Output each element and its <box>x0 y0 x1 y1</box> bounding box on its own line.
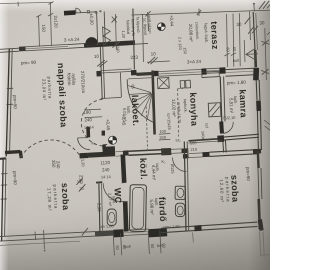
slashes left dim 10/24 <box>76 178 83 185</box>
door arc kamra <box>222 122 233 133</box>
beam 3xA24 above konyha door <box>202 71 220 77</box>
svg-text:240: 240 <box>56 161 61 169</box>
svg-text:pm=90: pm=90 <box>12 171 18 186</box>
door gap fürdő in W_mid <box>171 148 182 151</box>
wall pier before szoba north <box>182 148 189 153</box>
wall terasz west corner pier <box>131 70 137 76</box>
door gap 120 in W_mid thin lines <box>115 150 123 152</box>
svg-text:5,51 m²: 5,51 m² <box>229 98 235 114</box>
svg-text:60: 60 <box>162 243 167 248</box>
door half-disc on H1b <box>85 37 97 44</box>
wall R szoba segment double <box>257 111 258 150</box>
wall R pier to SE corner <box>259 199 260 229</box>
svg-text:±0,00: ±0,00 <box>89 13 95 25</box>
wire kamra south lower line <box>189 141 223 143</box>
svg-text:30: 30 <box>259 20 265 25</box>
svg-text:30: 30 <box>236 22 242 27</box>
wire konyha door lines below beam <box>202 77 219 78</box>
door jamb marks WC door <box>122 182 127 184</box>
wall V1 nappali east upper thin <box>100 47 102 99</box>
wire H1 right thin segment <box>68 44 84 45</box>
wall V3 door post black <box>219 122 224 134</box>
svg-text:Ø125: Ø125 <box>170 164 175 174</box>
svg-text:180: 180 <box>83 110 91 115</box>
exterior steps top-right diagonals <box>259 1 265 9</box>
wall szoba arch south pier <box>80 153 89 159</box>
svg-text:csúszásm.: csúszásm. <box>195 22 201 41</box>
wire top window wall H1 left segment <box>0 48 19 49</box>
wall R pier black kamra <box>256 101 261 112</box>
wall kamra-szoba connector <box>222 140 225 153</box>
svg-text:10: 10 <box>94 54 100 59</box>
wall stairwell south thick H1b <box>84 43 135 46</box>
svg-text:200: 200 <box>159 135 167 140</box>
wall north H2 lakóelőtér segment pier <box>97 71 102 77</box>
stair arrows triangles upper <box>103 27 111 36</box>
svg-text:+0,44: +0,44 <box>169 15 175 27</box>
svg-text:pm=90: pm=90 <box>12 95 18 110</box>
wall szoba north pier black <box>203 152 210 157</box>
window fürdő in B <box>124 229 149 230</box>
svg-text:223: 223 <box>130 55 138 60</box>
hatch slash near terasz west dim <box>148 57 155 64</box>
window W1 nappali top <box>26 44 69 46</box>
door arc lakóelőtér (K) with post <box>86 127 90 138</box>
wall B pier black right of fürdő window <box>149 232 168 233</box>
konyha sink square <box>180 81 185 89</box>
dim line door 180 ticks <box>84 109 102 118</box>
svg-text:12,60 m²: 12,60 m² <box>219 179 225 203</box>
wall SE corner block <box>260 220 262 231</box>
stair winder treads <box>128 78 153 79</box>
window ticks on L2 <box>1 173 7 175</box>
wall WC west top stub <box>96 181 102 183</box>
svg-text:sz=15x25: sz=15x25 <box>166 113 172 130</box>
dim bottom verticals 60/bolt <box>43 230 46 249</box>
svg-text:szl: szl <box>205 123 210 128</box>
svg-text:60: 60 <box>122 245 127 250</box>
svg-text:60: 60 <box>150 244 155 249</box>
svg-text:konyha: konyha <box>188 92 200 127</box>
wall R pier at terasz corner <box>254 50 257 67</box>
svg-text:szoba: szoba <box>60 183 71 212</box>
wall left outer L1 upper <box>6 49 9 157</box>
dim line 150 vertical <box>38 16 41 47</box>
wall right outer R terasz part <box>253 12 255 50</box>
wall lakóelőtér east niche <box>120 73 121 98</box>
chimney shaft X-rect at stair <box>157 77 169 88</box>
svg-text:lapburk.: lapburk. <box>183 99 189 113</box>
svg-text:pm 1,80: pm 1,80 <box>99 223 114 229</box>
wall fürdő east / szoba west <box>184 142 186 232</box>
svg-text:210: 210 <box>190 147 198 152</box>
wall NE corner pier <box>254 73 257 80</box>
door arc fürdő <box>173 158 187 172</box>
wall konyha/kamra V3 <box>220 77 222 122</box>
svg-text:150: 150 <box>183 47 188 55</box>
svg-text:pm=90: pm=90 <box>245 167 251 182</box>
chimney block konyha hatched <box>208 103 221 117</box>
window tick marks on L1 <box>7 87 13 89</box>
dim line 2x120 vertical <box>50 3 51 46</box>
wall left outer L2 lower <box>2 158 4 241</box>
dashed arch A1 szoba-nappali <box>21 140 80 157</box>
svg-text:20,88 m²: 20,88 m² <box>188 24 194 42</box>
window szoba east pm=90 <box>257 168 260 199</box>
bathtub <box>129 185 146 232</box>
door arc at stairwell top <box>76 8 81 13</box>
wire bottom wall B left triple lines <box>0 232 95 237</box>
hatch slash on V1 top <box>97 60 105 66</box>
svg-text:1,20: 1,20 <box>81 159 86 168</box>
svg-text:terasz: terasz <box>209 21 220 50</box>
stair winder right wall <box>153 71 155 135</box>
wall szoba NE corner pier <box>253 149 261 154</box>
svg-text:sz. lépcső: sz. lépcső <box>143 18 149 36</box>
wall terasz west edge <box>133 9 135 70</box>
svg-text:1,20: 1,20 <box>121 30 126 39</box>
svg-text:fagyá. lapb.: fagyá. lapb. <box>204 23 210 43</box>
svg-text:+0,45: +0,45 <box>121 114 127 126</box>
svg-text:240: 240 <box>84 117 92 122</box>
wall H2 stair top segment <box>137 73 156 74</box>
wall szoba north west pier <box>183 154 189 159</box>
wall H2 pier at stair right <box>154 71 159 77</box>
svg-text:közl.: közl. <box>138 158 149 180</box>
wire lakóelőtér north thin lines <box>102 69 132 71</box>
svg-text:270/210cm: 270/210cm <box>80 71 86 94</box>
svg-text:m=ldk 18,75: m=ldk 18,75 <box>176 102 182 124</box>
svg-text:23,04 m²: 23,04 m² <box>41 79 47 101</box>
svg-text:pm= 1,80: pm= 1,80 <box>227 80 247 86</box>
door jambs 180 in V1 <box>101 97 106 99</box>
wall W_mid kozl north <box>88 154 115 155</box>
wall V1 lower black to W_mid <box>102 145 107 155</box>
wall V4 fürdő west thick <box>123 155 124 183</box>
svg-text:1404: 1404 <box>201 131 206 141</box>
dashed arc A2 big door nappali-közl <box>81 99 104 146</box>
svg-text:+0,45: +0,45 <box>105 119 111 131</box>
svg-text:2 x 120: 2 x 120 <box>178 37 184 51</box>
wall pier H1a <box>19 46 26 51</box>
svg-text:2,30: 2,30 <box>97 203 102 212</box>
svg-text:100: 100 <box>159 129 167 134</box>
svg-text:10: 10 <box>151 51 157 56</box>
wall H2 pier black 2 <box>220 67 226 73</box>
svg-text:K₂: K₂ <box>161 159 166 164</box>
wall W_mid continues to fürdő <box>123 150 129 155</box>
svg-text:75/2,10: 75/2,10 <box>222 115 236 121</box>
wall kamra south H3 <box>189 139 223 141</box>
svg-text:14 14: 14 14 <box>101 174 112 179</box>
window kamra in H2 double <box>226 68 258 70</box>
svg-text:K₂: K₂ <box>91 140 96 145</box>
wall H2 pier black <box>202 68 207 74</box>
wall B band near WC <box>95 233 114 234</box>
svg-text:1120: 1120 <box>100 160 110 165</box>
svg-text:17,28 m²: 17,28 m² <box>47 188 53 212</box>
svg-text:pm= 1,80: pm= 1,80 <box>163 224 180 230</box>
svg-text:240: 240 <box>116 46 121 54</box>
hatch slashes 30/30 <box>248 26 254 33</box>
wall nappali SW corner jog <box>5 152 21 153</box>
svg-text:pm= 90: pm= 90 <box>21 60 37 66</box>
chimney block K2 on wall <box>161 148 171 155</box>
svg-text:5,98 m²: 5,98 m² <box>149 199 155 215</box>
konyha counter dashed front <box>178 89 179 137</box>
wall szoba south pier black <box>195 225 202 231</box>
svg-text:60: 60 <box>226 47 231 52</box>
svg-text:150: 150 <box>41 24 46 32</box>
stair curved left edge <box>127 79 153 122</box>
benchmark symbol +0,44 terasz <box>157 23 165 31</box>
svg-text:240: 240 <box>102 167 110 172</box>
toilet WC <box>107 209 116 226</box>
dim marks 100/200 közl <box>159 134 171 141</box>
dim verticals above kamra 60/60 <box>226 14 229 67</box>
dim line top paper edge <box>0 2 53 3</box>
svg-text:85: 85 <box>131 84 136 89</box>
svg-text:60: 60 <box>232 47 237 52</box>
svg-text:bolt: bolt <box>233 58 240 63</box>
toilet fürdő <box>175 203 185 217</box>
washbasin fürdő <box>175 186 185 199</box>
dim terasz top line <box>132 10 270 15</box>
svg-text:4,44 m²: 4,44 m² <box>151 165 157 181</box>
svg-text:sz₁: sz₁ <box>175 137 181 142</box>
svg-text:2x120: 2x120 <box>53 15 59 28</box>
window/door terasz in H2 thin <box>159 69 202 71</box>
wire SE extension lines down <box>260 232 261 257</box>
triangle arrow left of kamra dims <box>246 49 255 60</box>
wall stairwell north black bar <box>64 10 76 15</box>
benchmark symbol +0,45 <box>109 136 117 144</box>
wire stair flight verticals upper <box>97 12 98 45</box>
svg-text:3 ×A 24: 3 ×A 24 <box>64 37 80 43</box>
door arc WC <box>103 183 124 201</box>
dim ticks terasz top <box>147 12 150 31</box>
window konyha in H2 <box>207 67 220 70</box>
wall WC west (szoba east lower) <box>99 184 100 233</box>
svg-text:3×A 24: 3×A 24 <box>187 59 202 65</box>
wall R kamra segment <box>255 80 258 100</box>
wall B pier black left of fürdő window <box>114 229 124 237</box>
svg-text:500: 500 <box>190 140 198 145</box>
svg-text:nyílás: nyílás <box>71 73 77 86</box>
wire right edge marks <box>264 120 270 130</box>
wall szoba south double thin <box>161 222 258 228</box>
svg-text:2,37 m²: 2,37 m² <box>108 193 114 207</box>
svg-text:60: 60 <box>115 245 120 250</box>
stair bottom dashed line <box>146 107 147 153</box>
svg-text:14 14: 14 14 <box>84 125 95 130</box>
door gap 500/210 szoba north <box>189 152 203 155</box>
svg-text:parketta: parketta <box>52 184 58 209</box>
hatch slash on B <box>82 228 88 235</box>
wall stairwell north thin line <box>64 12 96 14</box>
wall szoba north double line <box>210 150 258 153</box>
